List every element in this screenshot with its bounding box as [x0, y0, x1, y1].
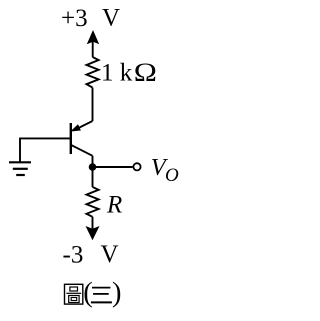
svg-text:Ω: Ω	[134, 58, 157, 87]
resistor R	[87, 187, 99, 217]
transistor Q1 PNP	[70, 121, 92, 156]
glyph TU middle bar	[66, 292, 81, 294]
svg-text:+3: +3	[61, 5, 88, 32]
base bar	[70, 123, 72, 154]
glyph TU lower inner	[71, 298, 77, 301]
node output junction	[89, 163, 97, 171]
svg-text:V: V	[102, 5, 120, 32]
output terminal	[133, 163, 140, 170]
wire collector to output node	[92, 156, 94, 167]
collector lead	[71, 145, 93, 156]
svg-text:1 k: 1 k	[101, 60, 133, 87]
label Vo	[151, 154, 179, 186]
glyph TU lower box	[69, 296, 79, 303]
-3 V supply label	[63, 241, 119, 268]
emitter lead with arrow into base	[74, 121, 93, 131]
+3 V supply arrow	[87, 30, 99, 57]
caption parentheses and SAN (three)	[83, 278, 121, 309]
-3 V supply arrow	[86, 217, 100, 241]
svg-text:V: V	[101, 241, 119, 268]
wire node to resistor R	[92, 167, 94, 187]
wire from R1 to transistor emitter	[92, 88, 94, 122]
wire base to ground	[20, 138, 70, 162]
glyph TU inner mouth	[70, 287, 78, 291]
svg-text:R: R	[106, 192, 122, 219]
caption: figure (three) in CJK drawn as paths	[65, 284, 83, 304]
svg-text:): )	[112, 278, 122, 309]
+3 V supply label	[61, 5, 120, 33]
svg-text:O: O	[165, 165, 179, 186]
svg-text:(: (	[83, 278, 93, 309]
ground	[9, 162, 31, 175]
svg-text:-3: -3	[63, 241, 84, 268]
wire node to output terminal	[93, 166, 133, 168]
resistor R1 1 kOhm	[87, 57, 99, 88]
glyph SAN: three bars	[91, 288, 112, 303]
glyph: TU (picture) outer box	[65, 284, 83, 304]
